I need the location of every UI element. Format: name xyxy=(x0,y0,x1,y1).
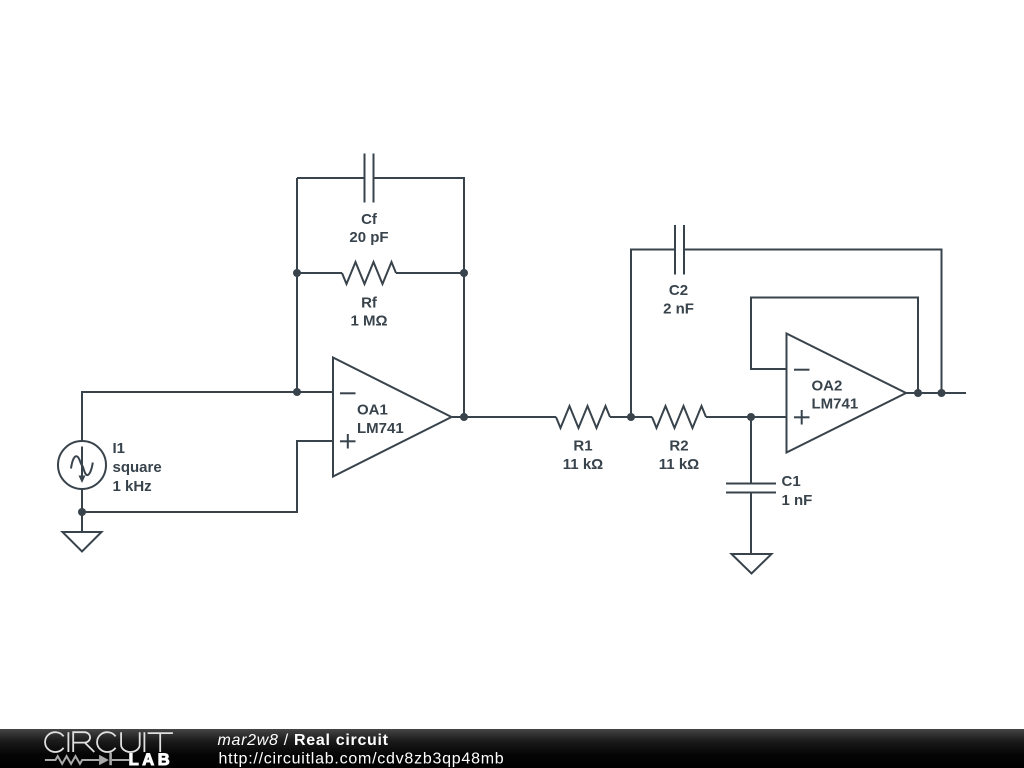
svg-text:1 kHz: 1 kHz xyxy=(113,478,152,495)
node A junction dot xyxy=(293,388,301,396)
footer bar xyxy=(0,729,1024,768)
junction dot OA2 output xyxy=(914,389,922,397)
wire top feedback left segment xyxy=(297,177,365,179)
ground below C1 xyxy=(732,554,772,574)
CircuitLab logo symbol xyxy=(45,753,129,766)
junction dot R1-R2 node xyxy=(627,413,635,421)
resistor Rf xyxy=(342,262,396,284)
resistor R2 xyxy=(652,406,706,428)
svg-text:1 nF: 1 nF xyxy=(782,492,813,509)
wire I1 top to inverting input row xyxy=(82,392,333,441)
wire Rf left lead xyxy=(297,272,342,274)
svg-text:OA2: OA2 xyxy=(812,378,843,395)
svg-text:R1: R1 xyxy=(573,438,592,455)
capacitor Cf xyxy=(365,154,374,203)
svg-text:Cf: Cf xyxy=(361,211,378,228)
op-amp OA1 xyxy=(333,358,452,477)
wire C1 top lead xyxy=(750,417,752,484)
junction dot OA1 output feedback xyxy=(460,413,468,421)
wire OA2 output xyxy=(906,392,967,394)
junction dot Rf left xyxy=(293,269,301,277)
current source I1 xyxy=(58,441,106,489)
wire Rf right lead xyxy=(396,272,464,274)
capacitor C2 xyxy=(675,225,684,275)
svg-text:square: square xyxy=(113,459,162,476)
svg-text:2 nF: 2 nF xyxy=(663,301,694,318)
wire C2 left vertical xyxy=(631,250,675,418)
svg-text:11 kΩ: 11 kΩ xyxy=(563,456,603,473)
junction dot I1 bottom xyxy=(78,508,86,516)
svg-text:OA1: OA1 xyxy=(357,402,388,419)
svg-text:1 MΩ: 1 MΩ xyxy=(350,313,387,330)
resistor R1 xyxy=(556,406,610,428)
wire OA2 inverting feedback loop xyxy=(751,298,918,394)
wire R2 to OA2 plus input xyxy=(706,416,786,418)
wire OA1 output to R1 xyxy=(452,416,556,418)
wire C1 bottom lead xyxy=(750,493,752,555)
svg-text:LM741: LM741 xyxy=(812,396,859,413)
svg-text:C2: C2 xyxy=(669,282,688,299)
wire top feedback right segment xyxy=(374,178,465,417)
capacitor C1 xyxy=(726,484,776,493)
svg-text:11 kΩ: 11 kΩ xyxy=(659,456,699,473)
svg-text:http://circuitlab.com/cdv8zb3q: http://circuitlab.com/cdv8zb3qp48mb xyxy=(219,751,505,768)
junction dot Rf right xyxy=(460,269,468,277)
op-amp OA2 xyxy=(787,334,907,453)
svg-text:C1: C1 xyxy=(782,473,801,490)
CircuitLab logo CIRCUIT letters xyxy=(45,732,173,752)
wire OA1 non-inverting input xyxy=(82,441,333,512)
wire left vertical of feedback block xyxy=(296,178,298,392)
wire I1 bottom lead xyxy=(81,489,83,532)
svg-text:I1: I1 xyxy=(113,440,126,457)
svg-text:LM741: LM741 xyxy=(357,420,404,437)
wire between R1 and R2 xyxy=(610,416,652,418)
svg-text:LAB: LAB xyxy=(129,751,174,768)
ground below I1 xyxy=(63,532,102,552)
junction dot C2 output xyxy=(938,389,946,397)
svg-text:R2: R2 xyxy=(669,438,688,455)
wire C2 right segment and vertical xyxy=(684,250,942,394)
svg-text:20 pF: 20 pF xyxy=(349,229,388,246)
svg-text:Rf: Rf xyxy=(361,295,378,312)
svg-text:mar2w8 / Real circuit: mar2w8 / Real circuit xyxy=(218,732,389,749)
junction dot C1 node xyxy=(747,413,755,421)
